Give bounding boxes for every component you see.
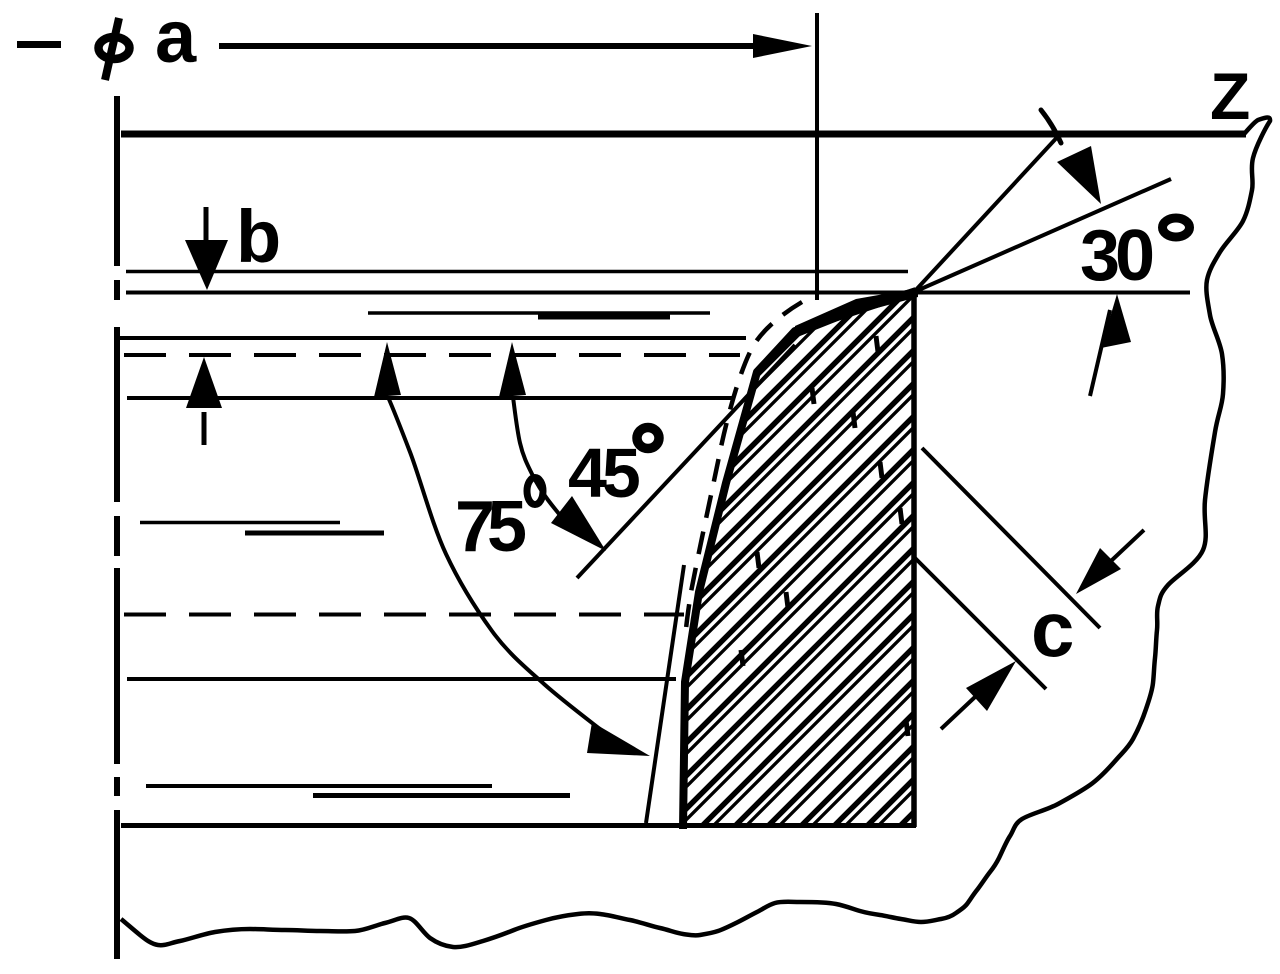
c lower arrow: [941, 661, 1016, 729]
dashed alternative contour (rounded profile): [685, 302, 802, 640]
centre axis line (dash-dot vertical): [114, 96, 120, 959]
bottom line of hole section: [121, 823, 916, 828]
dimension c: lower chamfer-parallel line: [915, 558, 1046, 689]
45deg extension line: [577, 345, 795, 578]
right edge of hatched zone: [911, 292, 917, 827]
75deg angle arc with arrowheads: [374, 342, 650, 756]
45deg line from corner: [914, 132, 1062, 292]
dimension b up-arrow: [186, 357, 222, 445]
dimension c: upper chamfer-parallel line: [922, 448, 1100, 628]
line B (material top surface, extends right as extension line): [126, 291, 1190, 295]
dashed centre line D2: [124, 613, 684, 617]
wavy break line (right side and bottom): [121, 117, 1270, 947]
surface mark lines upper: [368, 311, 710, 315]
thick wedge reinforcement on 30deg face: [795, 288, 918, 338]
30deg chamfer extension line: [914, 179, 1171, 292]
dashed centre line D: [124, 353, 740, 357]
svg-text:Z: Z: [1210, 59, 1250, 133]
rim surface line Z (thick): [121, 131, 1246, 138]
75deg extension line: [646, 565, 684, 823]
dimension b down-arrow: [185, 207, 228, 290]
surface mark lines lower: [146, 784, 492, 788]
leading dash of diameter label: [17, 41, 61, 48]
45deg angle arc with arrowheads: [499, 342, 606, 551]
line E (bore line): [127, 396, 734, 400]
svg-text:45: 45: [568, 434, 639, 512]
svg-text:75: 75: [455, 487, 526, 567]
dimension line for diameter a with arrowhead: [219, 43, 758, 49]
surface mark lines middle: [140, 521, 340, 525]
30deg angle arc with arrowhead: [1041, 110, 1101, 204]
label 75deg: [455, 478, 543, 568]
phi (diameter) symbol: [99, 18, 130, 80]
line C (bore line): [117, 336, 746, 340]
line A (upper thin surface line): [126, 270, 908, 274]
line F (bore line): [127, 677, 676, 681]
svg-text:b: b: [236, 195, 281, 278]
material boundary: 30deg face, 45deg face, 75deg face (thick): [683, 291, 916, 829]
svg-text:a: a: [155, 0, 197, 78]
svg-text:30: 30: [1080, 216, 1153, 296]
c upper arrow: [1076, 530, 1144, 594]
label 45deg: [568, 428, 659, 513]
label 30deg: [1080, 216, 1190, 296]
extension line (vertical) at hole edge: [815, 13, 819, 300]
svg-text:c: c: [1031, 585, 1074, 673]
up-arrow to line B (30deg reference): [1090, 294, 1131, 396]
